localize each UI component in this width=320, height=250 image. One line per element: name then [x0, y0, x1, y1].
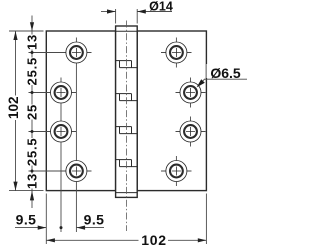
svg-text:102: 102: [6, 96, 21, 119]
svg-text:13: 13: [25, 34, 40, 50]
svg-text:25: 25: [25, 104, 40, 120]
svg-text:9.5: 9.5: [84, 211, 105, 227]
svg-text:102: 102: [141, 232, 166, 248]
svg-text:25.5: 25.5: [25, 57, 40, 86]
svg-text:9.5: 9.5: [16, 211, 37, 227]
svg-text:25.5: 25.5: [25, 138, 40, 167]
svg-text:13: 13: [25, 173, 40, 189]
svg-text:Ø6.5: Ø6.5: [210, 65, 241, 81]
svg-text:Ø14: Ø14: [149, 0, 173, 14]
